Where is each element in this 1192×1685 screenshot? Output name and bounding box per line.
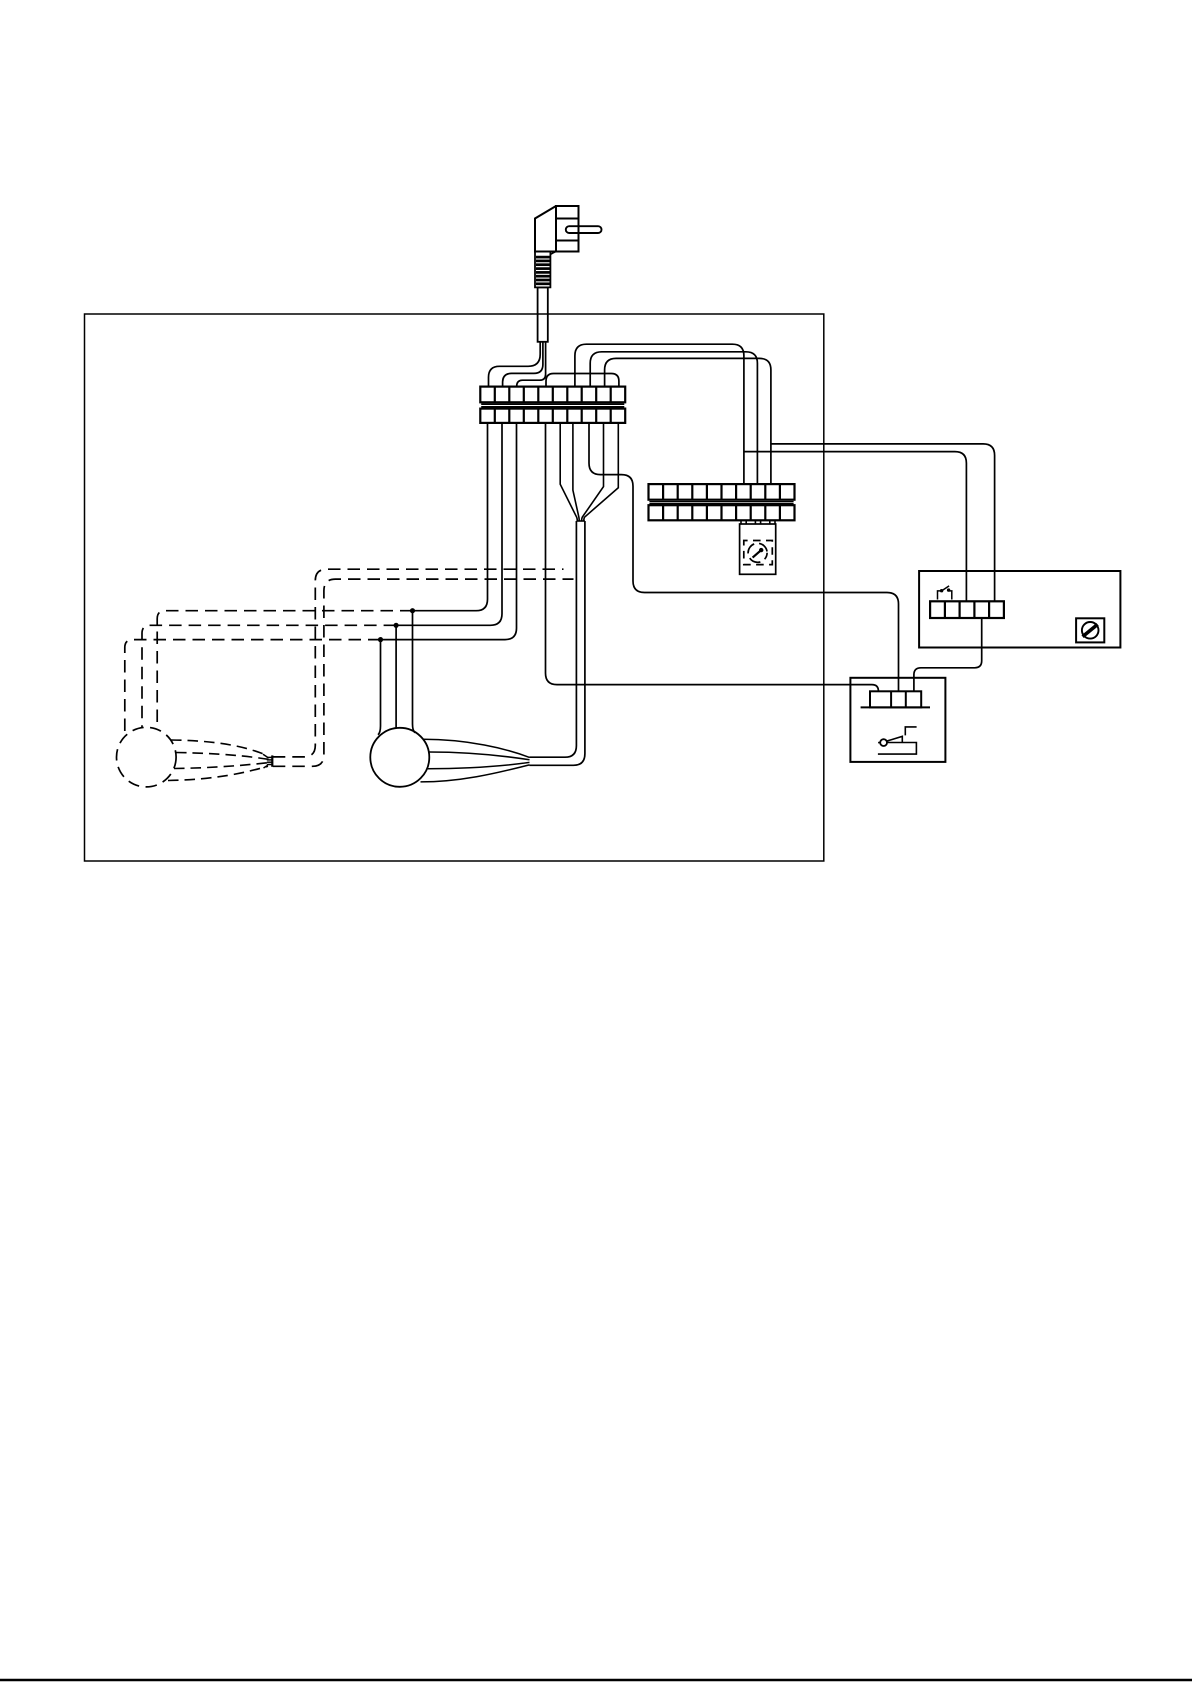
timer M1 dial needle (753, 550, 762, 558)
timer M1 dashed frame (744, 541, 773, 565)
mains plug P1 body (535, 206, 579, 252)
door switch box S1 (850, 678, 945, 762)
jumper bridge X1 cell5 to cell10 (546, 374, 619, 387)
wire X1 cell9 to X2 cell9 (605, 358, 771, 484)
pump fan-out wire 3 (428, 762, 530, 768)
plug earth pin (566, 226, 602, 233)
wire junction A down to pump M2 (413, 611, 416, 733)
power cord sheath (538, 287, 548, 341)
page footer rule (0, 1679, 1192, 1682)
cord wire L to X1 cell1 (489, 342, 541, 387)
harness funnel wire from X1 cell10 (584, 423, 619, 521)
wire X1 cell8 to door switch X4 cell2 (589, 423, 899, 691)
wire X1 cell1 to junction A (413, 423, 488, 611)
timer M1 needle knob (759, 548, 763, 552)
dashed wire junction B to motor M3 (142, 625, 396, 727)
pump loom sleeve left line (530, 521, 577, 757)
plug strain-relief boot (hatched) (535, 252, 556, 288)
harness funnel wire from X1 cell9 (582, 423, 604, 521)
pump fan-out wire 4 (421, 765, 530, 782)
wire X1 cell3 to junction C (381, 423, 517, 640)
dashed harness motor wire 1 (171, 740, 268, 756)
dashed harness motor wire 4 (168, 766, 268, 780)
splice connector K1 (263, 754, 272, 768)
junction A (410, 608, 415, 613)
pump loom sleeve top cap (576, 520, 585, 522)
junction B (394, 623, 399, 628)
terminal block X4 (870, 691, 921, 707)
door switch symbol (878, 727, 917, 754)
pump fan-out wire 2 (429, 752, 530, 760)
terminal block X2 middle rail (649, 502, 793, 504)
timer M1 housing (740, 524, 776, 574)
chassis boundary (appliance outline) (85, 314, 824, 861)
wire X1 cell2 to junction B (396, 423, 502, 625)
harness funnel wire from X1 cell6 (560, 423, 577, 521)
dashed wire junction C to motor M3 (125, 640, 381, 736)
heater control box U1 (919, 571, 1120, 648)
harness funnel wire from X1 cell7 (573, 423, 579, 521)
dashed wire junction A to motor M3 (157, 611, 412, 729)
relay contact symbol S2 (938, 586, 952, 600)
wire to heater box X3 cell3 (744, 452, 967, 602)
timer M1 connector stubs (741, 520, 775, 524)
pump loom sleeve right line (530, 521, 585, 765)
wire X3 cell4 to door switch X4 cell3 (914, 618, 982, 691)
dashed harness motor wire 2 (176, 753, 269, 760)
junction C (378, 637, 383, 642)
wire X1 cell5 to door switch X4 cell1 (546, 423, 879, 691)
terminal block X2 top row (649, 484, 795, 500)
terminal block X1 middle rail (481, 404, 624, 407)
wash motor M3 (optional, dashed) (117, 727, 177, 787)
thermostat screw T1 (1076, 618, 1104, 642)
wire junction C down to pump M2 (378, 640, 381, 735)
terminal block X2 bottom row (649, 505, 795, 520)
cord wire PE to X1 cell3 (517, 342, 546, 387)
dashed wire splice to loom (lower) (273, 579, 574, 766)
terminal block X4 base rail (861, 706, 930, 708)
timer M1 dial circle (748, 543, 767, 562)
cord wire N to X1 cell2 (503, 342, 543, 387)
terminal block X1 bottom row (480, 409, 625, 423)
terminal block X3 (930, 601, 1004, 618)
pump fan-out wire 1 (423, 739, 530, 757)
terminal block X1 top row (480, 387, 625, 403)
drain pump M2 (370, 728, 429, 787)
wire to heater box X3 cell5 (771, 444, 995, 601)
wire X1 cell8 to X2 cell8 (590, 352, 757, 484)
dashed wire splice to loom (upper) (273, 569, 564, 757)
wire X1 cell7 to X2 cell7 (575, 344, 744, 484)
wire junction B down to pump M2 (395, 625, 397, 728)
dashed harness motor wire 3 (174, 763, 269, 769)
